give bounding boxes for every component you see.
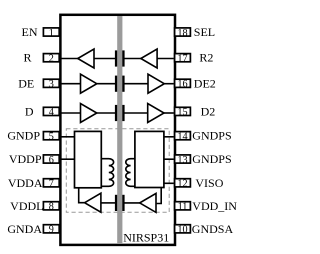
wire VDDP pin6 bbox=[62, 158, 76, 160]
svg-text:18: 18 bbox=[177, 28, 187, 39]
pin 8 box bbox=[43, 202, 59, 210]
svg-text:4: 4 bbox=[49, 107, 54, 118]
pin 13 box bbox=[175, 155, 191, 163]
coupling plate DE left bbox=[115, 76, 117, 92]
coupling plate D left bbox=[115, 105, 117, 121]
pin 16 box bbox=[175, 79, 191, 87]
pin 10 box bbox=[175, 225, 191, 233]
wire feedback to barrier bbox=[101, 202, 116, 204]
wire D row right bbox=[164, 112, 174, 114]
svg-text:R2: R2 bbox=[199, 51, 213, 65]
svg-text:DE2: DE2 bbox=[194, 76, 216, 90]
pin 4 box bbox=[43, 107, 59, 115]
coupling plate feedback left bbox=[115, 195, 117, 211]
wire GNDP pin5 bbox=[62, 136, 76, 138]
pin 9 box bbox=[43, 225, 59, 233]
svg-text:NIRSP31: NIRSP31 bbox=[123, 231, 169, 245]
svg-text:GNDP: GNDP bbox=[7, 129, 40, 143]
svg-text:2: 2 bbox=[49, 54, 54, 65]
coupling plate D right bbox=[122, 105, 124, 121]
svg-text:GNDPS: GNDPS bbox=[192, 129, 231, 143]
svg-text:EN: EN bbox=[22, 25, 38, 39]
wire R row from barrier bbox=[124, 58, 141, 60]
svg-text:DE: DE bbox=[18, 76, 34, 90]
pin 11 box bbox=[175, 202, 191, 210]
svg-text:VDDA: VDDA bbox=[8, 176, 43, 190]
pin 17 box bbox=[175, 54, 191, 62]
svg-text:GNDPS: GNDPS bbox=[192, 152, 231, 166]
svg-text:GNDSA: GNDSA bbox=[192, 222, 234, 236]
wire R row right bbox=[157, 58, 174, 60]
svg-text:16: 16 bbox=[177, 79, 187, 90]
pin 5 box bbox=[43, 132, 59, 140]
driver buffer DE (points right) bbox=[81, 74, 97, 93]
svg-text:VISO: VISO bbox=[195, 176, 223, 190]
svg-text:7: 7 bbox=[49, 179, 54, 190]
svg-text:D: D bbox=[25, 104, 34, 118]
wire GNDPS pin13 bbox=[164, 158, 174, 160]
wire feedback buffer input from secondary block bbox=[157, 188, 162, 204]
wire DE row to barrier bbox=[97, 83, 116, 85]
wire DE row right bbox=[164, 83, 174, 85]
svg-text:10: 10 bbox=[177, 225, 187, 236]
pin 2 box bbox=[43, 54, 59, 62]
pin 3 box bbox=[43, 79, 59, 87]
wire DE row left bbox=[62, 83, 82, 85]
svg-text:VDD_IN: VDD_IN bbox=[192, 199, 237, 213]
isolation barrier bbox=[117, 16, 122, 244]
wire D row left bbox=[62, 112, 82, 114]
driver buffer DE2 (points right) bbox=[148, 74, 164, 93]
wire primary block to feedback buffer output bbox=[79, 188, 85, 203]
pin 15 box bbox=[175, 107, 191, 115]
receiver buffer R2 (points left) bbox=[141, 49, 157, 68]
coupling plate DE right bbox=[122, 76, 124, 92]
svg-text:6: 6 bbox=[49, 155, 54, 166]
svg-text:3: 3 bbox=[49, 79, 54, 90]
regulator block primary side bbox=[75, 131, 102, 187]
coupling plate R left bbox=[115, 50, 117, 66]
power isolation domain (dashed box) bbox=[66, 129, 169, 213]
svg-text:17: 17 bbox=[177, 54, 187, 65]
transformer primary winding bbox=[101, 159, 113, 187]
svg-text:1: 1 bbox=[49, 28, 54, 39]
svg-text:13: 13 bbox=[177, 155, 187, 166]
transformer secondary winding bbox=[126, 159, 135, 187]
svg-text:12: 12 bbox=[177, 179, 187, 190]
wire R row to barrier bbox=[94, 58, 116, 60]
wire DE row from barrier bbox=[124, 83, 148, 85]
pin 1 box bbox=[43, 28, 59, 36]
svg-text:8: 8 bbox=[49, 202, 54, 213]
svg-text:R: R bbox=[23, 51, 31, 65]
wire D row to barrier bbox=[97, 112, 116, 114]
pin 18 box bbox=[175, 28, 191, 36]
regulator block secondary side bbox=[135, 131, 164, 187]
svg-text:14: 14 bbox=[177, 132, 187, 143]
feedback buffer left (points left) bbox=[85, 193, 101, 212]
svg-text:VDDP: VDDP bbox=[9, 152, 42, 166]
wire GNDPS pin14 bbox=[164, 136, 174, 138]
svg-text:5: 5 bbox=[49, 132, 54, 143]
svg-text:SEL: SEL bbox=[194, 25, 215, 39]
svg-text:GNDA: GNDA bbox=[7, 222, 42, 236]
feedback buffer right (points left) bbox=[140, 193, 156, 212]
pin 7 box bbox=[43, 179, 59, 187]
receiver buffer R (points left) bbox=[78, 49, 94, 68]
wire D row from barrier bbox=[124, 112, 148, 114]
wire VISO pin12 bbox=[164, 182, 174, 184]
svg-text:15: 15 bbox=[177, 107, 187, 118]
pin 14 box bbox=[175, 132, 191, 140]
IC body U1 bbox=[60, 15, 175, 245]
svg-text:9: 9 bbox=[49, 225, 54, 236]
coupling plate feedback right bbox=[122, 195, 124, 211]
pin 6 box bbox=[43, 155, 59, 163]
svg-text:11: 11 bbox=[178, 202, 188, 213]
svg-text:VDDL: VDDL bbox=[10, 199, 43, 213]
coupling plate R right bbox=[122, 50, 124, 66]
driver buffer D2 (points right) bbox=[148, 104, 164, 123]
pin 12 box bbox=[175, 179, 191, 187]
driver buffer D (points right) bbox=[81, 104, 97, 123]
wire barrier to feedback buffer right bbox=[124, 202, 140, 204]
svg-text:D2: D2 bbox=[201, 104, 216, 118]
wire R row left bbox=[62, 58, 79, 60]
